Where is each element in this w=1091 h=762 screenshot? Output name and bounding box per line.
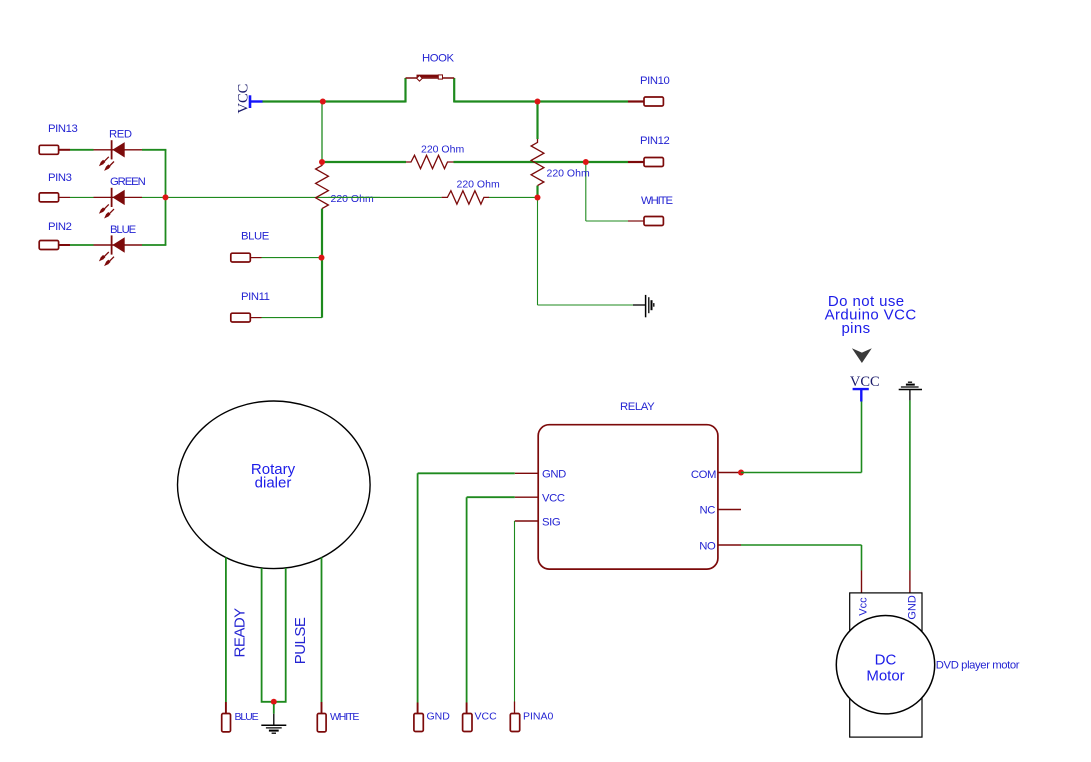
svg-text:COM: COM: [691, 469, 716, 481]
svg-text:GND: GND: [907, 595, 919, 620]
svg-text:NO: NO: [699, 541, 716, 553]
svg-text:BLUE: BLUE: [241, 231, 270, 243]
svg-text:PIN11: PIN11: [241, 291, 270, 303]
svg-text:Vcc: Vcc: [858, 597, 870, 616]
svg-text:DC: DC: [875, 652, 897, 669]
svg-text:GREEN: GREEN: [110, 176, 146, 188]
svg-text:Arduino VCC: Arduino VCC: [825, 307, 917, 324]
svg-text:GND: GND: [542, 469, 566, 481]
svg-text:BLUE: BLUE: [110, 224, 137, 236]
svg-text:220 Ohm: 220 Ohm: [457, 178, 500, 190]
svg-text:HOOK: HOOK: [422, 53, 455, 65]
svg-text:PIN2: PIN2: [48, 221, 72, 233]
svg-text:BLUE: BLUE: [235, 711, 259, 723]
svg-text:GND: GND: [427, 711, 451, 723]
svg-text:pins: pins: [841, 320, 870, 337]
svg-text:PIN10: PIN10: [640, 75, 670, 87]
svg-text:220 Ohm: 220 Ohm: [547, 168, 590, 180]
svg-text:220 Ohm: 220 Ohm: [421, 143, 464, 155]
svg-text:VCC: VCC: [850, 374, 880, 390]
svg-text:SIG: SIG: [542, 516, 560, 528]
svg-text:PINA0: PINA0: [523, 711, 554, 723]
svg-text:NC: NC: [699, 505, 715, 517]
svg-text:Motor: Motor: [866, 667, 904, 684]
svg-text:WHITE: WHITE: [330, 711, 359, 723]
svg-text:PIN3: PIN3: [48, 172, 72, 184]
svg-text:RED: RED: [109, 128, 132, 140]
svg-text:PIN12: PIN12: [640, 135, 670, 147]
svg-text:PULSE: PULSE: [292, 617, 309, 664]
svg-text:PIN13: PIN13: [48, 123, 78, 135]
svg-text:220 Ohm: 220 Ohm: [331, 193, 374, 205]
svg-text:VCC: VCC: [475, 711, 498, 723]
svg-text:VCC: VCC: [542, 493, 565, 505]
svg-text:RELAY: RELAY: [620, 401, 655, 413]
svg-text:WHITE: WHITE: [641, 195, 673, 207]
svg-text:READY: READY: [232, 608, 249, 658]
svg-text:DVD player motor: DVD player motor: [936, 660, 1020, 672]
svg-text:dialer: dialer: [255, 475, 292, 492]
